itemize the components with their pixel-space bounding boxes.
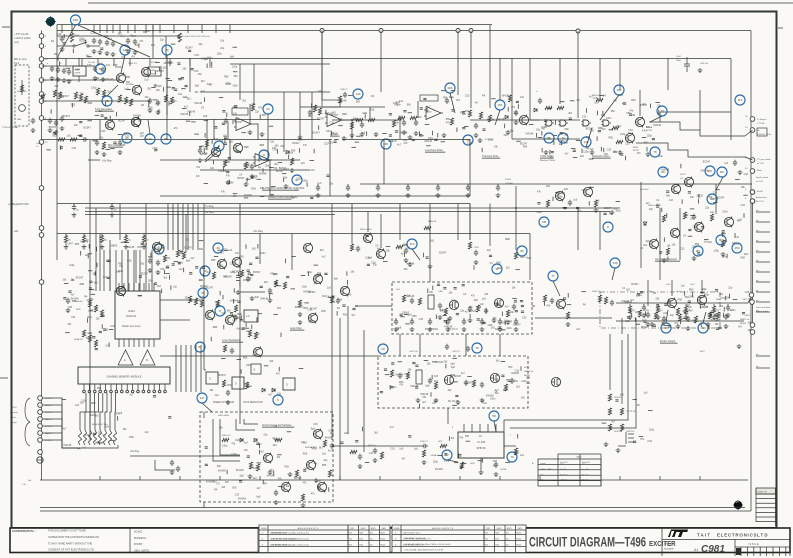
wire [395, 318, 397, 321]
svg-text:2k2: 2k2 [145, 96, 150, 99]
svg-text:IN4148: IN4148 [295, 306, 303, 309]
callout 110 [407, 239, 417, 249]
tp annotations [602, 391, 655, 443]
svg-text:BC547: BC547 [292, 142, 300, 145]
value label [396, 289, 400, 291]
svg-text:THIS DOCUMENT IS NOT T: THIS DOCUMENT IS NOT TO BE [48, 530, 86, 533]
ground [436, 193, 441, 198]
resistor R407 [74, 92, 77, 99]
callout 76 [544, 133, 554, 143]
transistor Q411 BC327 [625, 133, 634, 144]
rxvco annotations 2 [380, 360, 531, 404]
svg-text:CIRCUIT DIAGRAM—T496: CIRCUIT DIAGRAM—T496 [529, 535, 646, 550]
ground [48, 128, 53, 133]
wire [164, 384, 166, 390]
svg-text:CO: CO [680, 178, 683, 180]
svg-text:B005: B005 [517, 533, 521, 535]
resistor R473 [94, 340, 97, 347]
value label [243, 402, 263, 404]
resistor R443 [683, 212, 686, 219]
resistor R484 [402, 295, 405, 302]
value label [532, 462, 534, 465]
wire [532, 305, 535, 307]
wire [342, 139, 470, 141]
value label [592, 291, 601, 293]
wire [145, 204, 147, 251]
ground [428, 264, 433, 269]
callout 0B [539, 217, 549, 227]
ground [105, 51, 110, 56]
inner border right+bottom [40, 31, 751, 512]
ground [274, 500, 279, 505]
connector pin [469, 29, 473, 33]
callout B6 [707, 194, 717, 204]
svg-text:C33: C33 [744, 173, 749, 176]
value label [47, 62, 49, 65]
op-amp U405 limiter [325, 114, 344, 127]
svg-text:CHKD: CHKD [497, 528, 503, 530]
svg-text:5v 700: 5v 700 [560, 469, 567, 471]
svg-text:150n: 150n [120, 36, 124, 38]
channel memory box [78, 367, 170, 384]
value label [45, 46, 47, 48]
value label [756, 310, 769, 313]
svg-text:IN4148: IN4148 [180, 113, 188, 116]
svg-text:IN4148: IN4148 [395, 374, 403, 377]
value label [128, 309, 135, 313]
value label [636, 295, 643, 297]
svg-text:C447 1u5: C447 1u5 [409, 351, 419, 353]
svg-text:C33: C33 [68, 306, 73, 309]
value label [676, 56, 682, 58]
resistor R499 [406, 372, 409, 379]
connector pin 16 [750, 117, 755, 122]
connector pin BCD6 [38, 438, 43, 443]
transistor Q438 BC549 [313, 429, 322, 440]
value label [45, 440, 53, 442]
capacitor C432 [402, 120, 406, 126]
svg-text:3k3: 3k3 [138, 295, 143, 298]
svg-text:4u7: 4u7 [475, 101, 480, 104]
capacitor C409 [126, 38, 130, 44]
value label [45, 398, 53, 400]
svg-text:22p: 22p [642, 103, 647, 106]
section label out of lock [655, 258, 680, 261]
svg-text:22p: 22p [291, 196, 296, 199]
svg-text:560: 560 [146, 30, 151, 33]
wire [138, 339, 140, 347]
value label [474, 247, 480, 249]
ool labels [646, 199, 744, 252]
svg-text:22p: 22p [705, 207, 710, 210]
svg-text:C33: C33 [465, 95, 470, 98]
svg-text:120p: 120p [467, 142, 473, 145]
svg-text:120p: 120p [254, 333, 260, 336]
svg-text:120p: 120p [649, 428, 655, 431]
value label [74, 300, 84, 303]
svg-text:3k3: 3k3 [103, 276, 108, 279]
svg-text:IN4148: IN4148 [64, 444, 72, 447]
svg-text:22p: 22p [536, 129, 541, 132]
resistor R516 [716, 312, 719, 319]
svg-text:22p: 22p [619, 94, 624, 97]
svg-text:4u7: 4u7 [564, 142, 569, 145]
svg-text:R56: R56 [75, 243, 80, 246]
resistor R509 [620, 408, 623, 415]
svg-text:BC547: BC547 [219, 374, 227, 377]
svg-text:4u7: 4u7 [461, 372, 466, 375]
value label [430, 454, 439, 457]
value label [524, 375, 531, 377]
value label [476, 446, 486, 450]
wire [99, 25, 101, 34]
svg-text:IN4148: IN4148 [502, 95, 510, 98]
svg-text:13u2: 13u2 [676, 56, 682, 58]
module pin [148, 390, 151, 393]
callout 9a [154, 244, 164, 254]
svg-text:3k3: 3k3 [609, 212, 614, 215]
wire [229, 139, 231, 160]
dense phase [536, 185, 617, 214]
callout 46 [213, 243, 223, 253]
svg-text:1n0: 1n0 [735, 236, 740, 239]
svg-text:BC547: BC547 [436, 361, 444, 364]
svg-text:6p8: 6p8 [646, 240, 651, 243]
ground [642, 313, 647, 318]
resistor R492 [604, 297, 607, 304]
junction node [321, 30, 323, 32]
wire [253, 64, 255, 104]
callout 87 [195, 342, 205, 352]
wire [649, 122, 745, 136]
wire [529, 234, 531, 281]
wire [499, 318, 501, 321]
resistor R466 [200, 300, 203, 307]
ground [656, 315, 661, 320]
wire [127, 25, 129, 34]
svg-text:BC547: BC547 [235, 121, 243, 124]
wire [213, 419, 240, 461]
ground [198, 158, 203, 163]
wire [153, 283, 155, 291]
value label [68, 240, 72, 242]
svg-text:C459A 4u: C459A 4u [430, 454, 439, 457]
svg-text:pin: pin [756, 250, 758, 252]
svg-text:6p8: 6p8 [495, 328, 500, 331]
wire [481, 318, 483, 321]
svg-text:C456 27: C456 27 [420, 441, 428, 443]
ground [234, 315, 239, 320]
svg-text:select: select [10, 416, 16, 419]
value label [90, 33, 97, 35]
transient mute labels [482, 95, 534, 149]
edge label [756, 240, 770, 242]
svg-text:R56: R56 [523, 145, 528, 148]
svg-text:1u0: 1u0 [317, 182, 322, 185]
svg-text:BC547: BC547 [465, 381, 473, 384]
svg-text:120p: 120p [440, 310, 446, 313]
svg-text:1n0: 1n0 [228, 249, 233, 252]
resistor R497 [656, 306, 659, 313]
wire [160, 159, 300, 161]
ground [404, 258, 409, 263]
svg-text:GATE: GATE [540, 463, 546, 466]
wire [752, 201, 754, 325]
IC412 box [244, 310, 258, 322]
ground [474, 260, 479, 265]
wire [42, 405, 80, 448]
resistor R403 [96, 88, 99, 95]
resistor R431 [392, 120, 395, 127]
leader line [166, 55, 168, 115]
svg-text:BC547: BC547 [157, 70, 165, 73]
svg-text:1u0: 1u0 [495, 392, 500, 395]
value label [14, 230, 19, 233]
resistor R421 [290, 158, 293, 165]
midleft annotations [64, 239, 208, 301]
svg-text:2k2: 2k2 [105, 35, 110, 38]
svg-text:IC401: IC401 [128, 309, 135, 313]
ground [479, 470, 484, 475]
svg-text:3k3: 3k3 [564, 134, 569, 137]
svg-text:R409 2v4/4fs: R409 2v4/4fs [360, 229, 372, 231]
svg-text:560: 560 [126, 81, 131, 84]
wire [89, 204, 91, 441]
svg-text:R56: R56 [239, 255, 244, 258]
wire [132, 384, 134, 390]
transistor Q416 [313, 274, 322, 285]
capacitor C423 [82, 137, 88, 141]
capacitor C425 [480, 319, 484, 325]
svg-text:1n0: 1n0 [595, 199, 600, 202]
svg-text:3k3: 3k3 [456, 99, 461, 102]
wire [463, 318, 465, 321]
value label [757, 118, 767, 121]
svg-text:+5v Reg: +5v Reg [102, 160, 112, 163]
ground [316, 193, 321, 198]
svg-text:Rx Reg: Rx Reg [205, 210, 214, 214]
resistor R420 [244, 162, 247, 169]
exciter line [616, 298, 751, 303]
svg-text:120p: 120p [714, 250, 720, 253]
wire [160, 355, 378, 357]
svg-text:4u7: 4u7 [390, 426, 395, 429]
mixer labels [301, 423, 349, 455]
resistor R489 [543, 295, 546, 302]
wire [73, 204, 75, 207]
transistor Q421 BC547 [376, 249, 385, 260]
wire [105, 393, 107, 430]
leader line [202, 403, 212, 412]
wire [616, 320, 744, 322]
wire [115, 250, 117, 291]
resistor R515 [694, 316, 697, 323]
value label [60, 62, 62, 65]
resistor R503 [514, 448, 517, 455]
ground [142, 245, 147, 250]
svg-text:3k3: 3k3 [484, 293, 489, 296]
svg-text:1n0: 1n0 [272, 147, 277, 150]
resistor R462 [216, 300, 219, 307]
wire [465, 334, 467, 356]
value label [360, 229, 372, 231]
svg-text:100n: 100n [722, 256, 728, 259]
value label [540, 160, 556, 162]
svg-text:47u: 47u [506, 545, 509, 547]
value label [632, 310, 636, 312]
svg-text:2k2: 2k2 [163, 66, 168, 69]
svg-text:B9: B9 [708, 169, 712, 173]
op-amp U404a [234, 118, 253, 131]
dense ic409 [438, 436, 524, 467]
ground [684, 315, 689, 320]
sub box 4 [251, 364, 261, 374]
serial dashed box [200, 412, 333, 502]
wire [113, 59, 115, 67]
resistor R476 [64, 236, 67, 243]
svg-text:560: 560 [232, 487, 237, 490]
svg-text:BC547: BC547 [185, 47, 193, 50]
svg-text:B005: B005 [381, 539, 385, 541]
resistor R490 [566, 312, 569, 319]
capacitor C449 [642, 305, 646, 311]
transistor Q409 [519, 115, 528, 126]
wire [619, 58, 621, 90]
module pin [94, 390, 97, 393]
ground [50, 76, 55, 81]
value label [510, 435, 512, 437]
wire [80, 393, 86, 430]
leader line [703, 312, 706, 323]
wire [81, 59, 83, 67]
svg-text:22p: 22p [263, 434, 268, 437]
ground [111, 52, 116, 57]
svg-text:120p: 120p [90, 414, 96, 417]
ground [290, 168, 295, 173]
svg-text:3k3: 3k3 [320, 249, 325, 252]
serial labels [206, 432, 335, 499]
capacitor C465 [398, 373, 402, 379]
wire [618, 445, 626, 447]
svg-text:R56: R56 [291, 150, 296, 153]
capacitor C455 [438, 303, 442, 309]
ground [466, 193, 471, 198]
capacitor C471 [466, 346, 470, 352]
svg-text:50: 50 [164, 137, 168, 141]
wire [213, 119, 215, 140]
value label [520, 257, 529, 259]
svg-text:6p8: 6p8 [474, 299, 479, 302]
speedup labels [209, 355, 303, 397]
svg-text:0u01 Bv2: 0u01 Bv2 [640, 189, 649, 191]
value label [74, 35, 80, 37]
box filter [148, 67, 161, 76]
capacitor C422 [156, 100, 160, 106]
registration tick left bottom [0, 377, 8, 379]
svg-text:46: 46 [148, 137, 152, 141]
svg-text:100n: 100n [260, 252, 266, 255]
ground [126, 49, 131, 54]
wire [118, 283, 120, 291]
svg-text:N: N [146, 358, 148, 362]
svg-text:120p: 120p [87, 316, 93, 319]
wire [206, 120, 208, 151]
resistor R430 [410, 116, 417, 119]
resistor R406 [58, 92, 61, 99]
ground [248, 474, 253, 479]
transistor Q420 BC547 [363, 233, 372, 244]
ground [156, 110, 161, 115]
svg-text:A M E N D M E N T S: A M E N D M E N T S [432, 527, 453, 530]
svg-text:4u7: 4u7 [737, 219, 742, 222]
svg-text:560: 560 [199, 248, 204, 251]
resistor R495 [323, 440, 326, 447]
transistor Q413 BC548 [694, 222, 703, 233]
svg-text:BC547: BC547 [454, 375, 462, 378]
wire [487, 424, 489, 432]
ground [692, 256, 697, 261]
compass mark top left [45, 16, 57, 28]
wire [232, 120, 234, 124]
wire [269, 160, 271, 196]
svg-text:R88b 40: R88b 40 [428, 221, 437, 223]
svg-text:100n: 100n [246, 364, 252, 367]
wire [417, 101, 419, 118]
svg-text:IN4148: IN4148 [339, 100, 347, 103]
wire [515, 318, 517, 321]
resistor R463 [234, 305, 237, 312]
svg-text:C4773 750: C4773 750 [626, 411, 637, 413]
transistor Q443 BC557 [697, 295, 706, 306]
connector pin [750, 330, 755, 335]
capacitor C446 [176, 466, 180, 472]
svg-text:3k3: 3k3 [719, 293, 724, 296]
wire [139, 250, 141, 291]
wire [299, 476, 301, 480]
dense translators [211, 244, 268, 341]
capacitor C411 [50, 66, 54, 72]
svg-text:C33: C33 [308, 309, 313, 312]
svg-text:97: 97 [295, 178, 299, 182]
diode D406 [262, 388, 265, 392]
svg-text:148: 148 [122, 48, 127, 52]
svg-text:CHKD: CHKD [361, 528, 367, 530]
wire [332, 119, 398, 121]
svg-text:107: 107 [616, 88, 621, 92]
ground [248, 130, 253, 135]
capacitor C472 [494, 462, 498, 468]
svg-text:4u7: 4u7 [328, 450, 333, 453]
ground [358, 464, 363, 469]
wire [347, 184, 349, 187]
svg-text:IN4148: IN4148 [526, 133, 534, 136]
transistor Q418 6403 BC547 [308, 313, 317, 324]
ground [724, 324, 729, 329]
wire [713, 304, 715, 307]
amendment row text [271, 544, 309, 547]
svg-text:120p: 120p [497, 267, 503, 270]
svg-text:1n0: 1n0 [399, 447, 404, 450]
wire [180, 345, 182, 392]
ground [721, 252, 726, 257]
wire [515, 186, 517, 250]
svg-text:100n: 100n [689, 296, 695, 299]
capacitor C458 [512, 304, 516, 310]
dense exciter [626, 284, 752, 328]
ground [373, 458, 378, 463]
junction node [515, 207, 517, 209]
svg-text:1u0: 1u0 [75, 404, 80, 407]
